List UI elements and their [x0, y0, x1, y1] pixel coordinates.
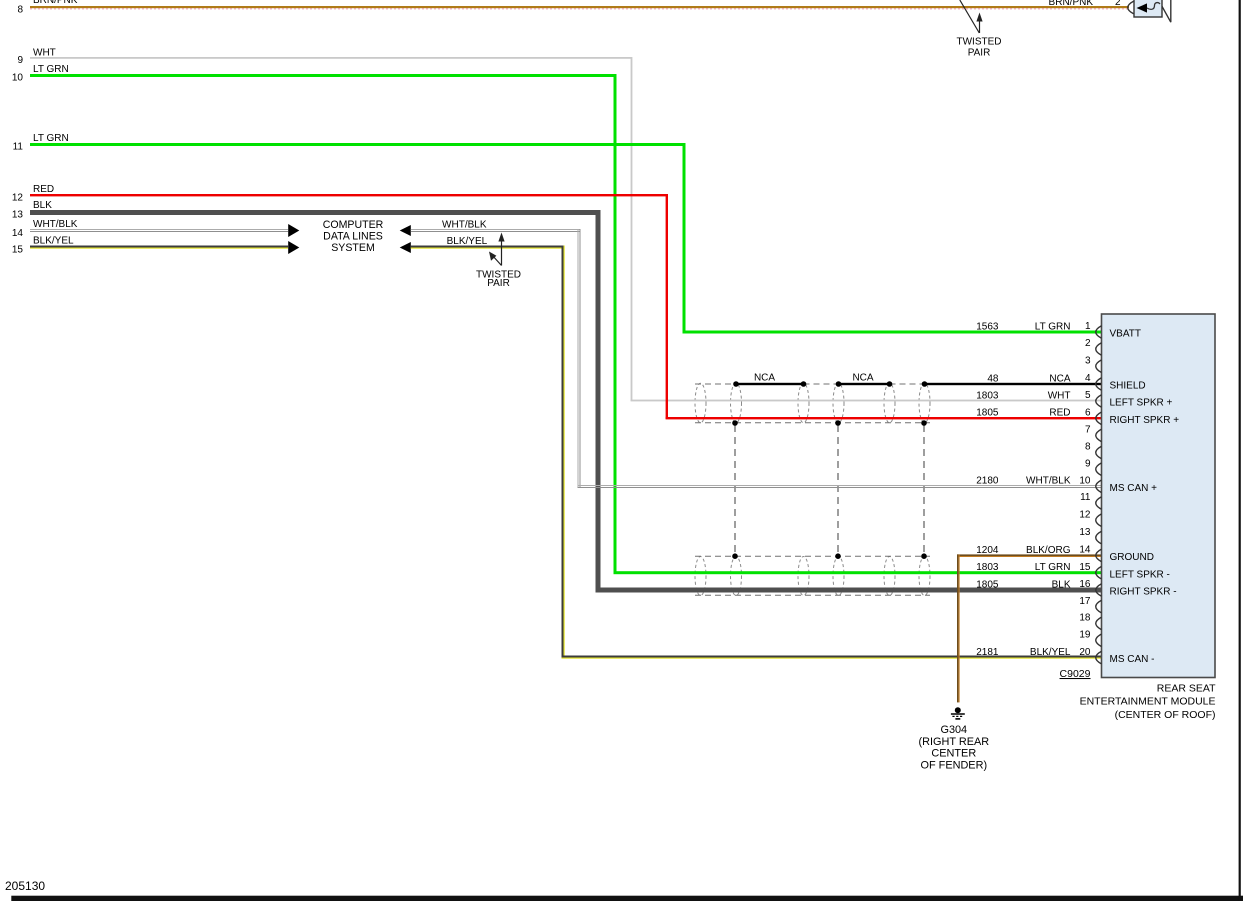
svg-text:8: 8 — [17, 5, 23, 16]
svg-text:10: 10 — [1079, 476, 1091, 487]
svg-text:MS CAN +: MS CAN + — [1110, 483, 1158, 494]
speaker (top right, cropped) — [1134, 0, 1171, 22]
svg-text:13: 13 — [1079, 527, 1091, 538]
svg-text:BLK/ORG: BLK/ORG — [1026, 545, 1071, 556]
svg-text:BLK/YEL: BLK/YEL — [447, 236, 488, 247]
shield rings upper (pins 4-6 cable) — [695, 383, 930, 423]
module: rear seat entertainment module box — [1102, 314, 1216, 678]
svg-text:MS CAN -: MS CAN - — [1110, 654, 1155, 665]
svg-text:11: 11 — [1080, 492, 1091, 503]
shield drain dashed verticals — [735, 425, 924, 553]
svg-text:15: 15 — [1079, 562, 1091, 573]
svg-text:7: 7 — [1085, 425, 1091, 436]
svg-text:8: 8 — [1085, 442, 1091, 453]
shield dashed top line lower — [695, 555, 930, 557]
page bottom bar — [11, 896, 1243, 901]
svg-text:RIGHT SPKR +: RIGHT SPKR + — [1110, 415, 1180, 426]
wire 10 LT GRN (to pin 15) — [12, 64, 1101, 574]
svg-text:NCA: NCA — [852, 373, 873, 384]
svg-text:12: 12 — [1079, 509, 1091, 520]
svg-text:2: 2 — [1115, 0, 1121, 8]
node COMPUTER DATA LINES SYSTEM — [323, 219, 384, 254]
pin 6 connector arc — [976, 408, 1179, 426]
speaker connector arc and arrow — [1128, 1, 1160, 14]
wire 15 BLK/YEL stub to computer data lines — [12, 236, 299, 256]
wire BLK/ORG 1204 (pin 14 to G304) — [957, 554, 1102, 702]
pin 9 connector arc — [1085, 458, 1102, 475]
svg-text:LEFT SPKR -: LEFT SPKR - — [1110, 569, 1170, 580]
pin 5 connector arc — [976, 390, 1172, 408]
junction dots shield top lower — [732, 553, 927, 559]
svg-text:2: 2 — [1085, 338, 1091, 349]
wire 11 LT GRN (to pin 1) — [13, 133, 1101, 334]
wire 9 WHT (to pin 5) — [17, 48, 1101, 402]
junction dots NCA drain (top) — [733, 381, 927, 387]
svg-text:10: 10 — [12, 73, 24, 84]
svg-text:11: 11 — [13, 142, 24, 153]
svg-text:6: 6 — [1085, 408, 1091, 419]
shield drain dashed top line upper — [695, 383, 925, 385]
pin 18 connector arc — [1079, 613, 1101, 630]
svg-text:BLK: BLK — [1052, 579, 1071, 590]
svg-text:ENTERTAINMENT MODULE: ENTERTAINMENT MODULE — [1080, 696, 1216, 708]
svg-text:LEFT SPKR +: LEFT SPKR + — [1110, 398, 1173, 409]
svg-text:SYSTEM: SYSTEM — [331, 242, 375, 254]
svg-text:G304: G304 — [940, 724, 967, 736]
svg-text:BLK/YEL: BLK/YEL — [1030, 647, 1071, 658]
svg-text:COMPUTER: COMPUTER — [323, 219, 384, 231]
pin 14 connector arc — [976, 545, 1154, 563]
svg-text:REAR SEAT: REAR SEAT — [1157, 682, 1216, 694]
svg-text:CENTER: CENTER — [931, 748, 976, 760]
wire 12 RED (to pin 6) — [12, 184, 1101, 419]
svg-text:1805: 1805 — [976, 579, 999, 590]
svg-text:205130: 205130 — [5, 879, 45, 893]
junction dots shield bottom — [732, 420, 927, 426]
svg-text:1803: 1803 — [976, 562, 999, 573]
svg-text:19: 19 — [1079, 630, 1091, 641]
connector designator C9029 — [1060, 668, 1091, 680]
twisted pair callout (computer data lines) — [476, 233, 521, 290]
speaker wire labels (cropped) — [1049, 0, 1121, 8]
svg-text:14: 14 — [12, 228, 24, 239]
svg-text:4: 4 — [1085, 373, 1091, 384]
svg-text:DATA LINES: DATA LINES — [323, 230, 383, 242]
svg-text:1563: 1563 — [976, 321, 999, 332]
svg-text:WHT/BLK: WHT/BLK — [33, 219, 78, 230]
svg-text:C9029: C9029 — [1060, 668, 1091, 680]
svg-text:WHT: WHT — [33, 48, 56, 59]
svg-text:WHT/BLK: WHT/BLK — [1026, 476, 1071, 487]
svg-text:RED: RED — [33, 184, 54, 195]
wire WHT/BLK 2180 (to pin 10) — [400, 219, 1102, 488]
svg-text:16: 16 — [1079, 579, 1091, 590]
svg-text:BLK/YEL: BLK/YEL — [33, 236, 74, 247]
svg-text:WHT/BLK: WHT/BLK — [442, 219, 487, 230]
svg-text:BLK: BLK — [33, 200, 52, 211]
svg-text:12: 12 — [12, 193, 24, 204]
wire NCA 48 (to pin 4) — [736, 383, 1101, 385]
shield dashed bottom line lower — [695, 594, 930, 596]
svg-text:9: 9 — [1085, 458, 1091, 469]
svg-text:RIGHT SPKR -: RIGHT SPKR - — [1110, 587, 1177, 598]
svg-text:TWISTED: TWISTED — [957, 36, 1002, 47]
svg-text:WHT: WHT — [1048, 390, 1071, 401]
svg-text:17: 17 — [1079, 596, 1091, 607]
svg-text:LT GRN: LT GRN — [1035, 321, 1071, 332]
shield dashed bottom line upper — [695, 422, 930, 424]
svg-text:(CENTER OF ROOF): (CENTER OF ROOF) — [1115, 709, 1216, 721]
pin 15 connector arc — [976, 562, 1170, 580]
svg-text:NCA: NCA — [754, 373, 775, 384]
page right border — [1239, 0, 1241, 901]
pin 20 connector arc — [976, 647, 1154, 665]
pin 13 connector arc — [1079, 527, 1101, 544]
pin 17 connector arc — [1079, 596, 1101, 613]
svg-text:RED: RED — [1049, 408, 1070, 419]
svg-text:14: 14 — [1079, 545, 1091, 556]
wire 13 BLK thick (to pin 16) — [12, 200, 1101, 593]
ground G304 — [919, 707, 990, 771]
svg-text:NCA: NCA — [1049, 373, 1070, 384]
svg-text:BRN/PNK: BRN/PNK — [33, 0, 78, 6]
svg-text:VBATT: VBATT — [1110, 329, 1141, 340]
svg-text:LT GRN: LT GRN — [33, 133, 69, 144]
wire BLK/YEL 2181 (to pin 20) — [400, 236, 1101, 659]
pin 10 connector arc — [976, 476, 1157, 494]
svg-text:1803: 1803 — [976, 390, 999, 401]
svg-text:9: 9 — [17, 55, 23, 66]
svg-text:3: 3 — [1085, 355, 1091, 366]
pin 11 connector arc — [1080, 492, 1101, 509]
svg-text:18: 18 — [1079, 613, 1091, 624]
svg-text:1204: 1204 — [976, 545, 999, 556]
svg-text:13: 13 — [12, 210, 24, 221]
svg-text:PAIR: PAIR — [968, 48, 991, 59]
svg-text:LT GRN: LT GRN — [1035, 562, 1071, 573]
wire 14 WHT/BLK stub to computer data lines — [12, 219, 299, 239]
svg-text:SHIELD: SHIELD — [1110, 381, 1146, 392]
pin 19 connector arc — [1079, 630, 1101, 647]
pin 3 connector arc — [1085, 355, 1102, 372]
svg-text:15: 15 — [12, 245, 24, 256]
pin 1 connector arc — [976, 321, 1141, 339]
pin 8 connector arc — [1085, 442, 1102, 459]
svg-text:2181: 2181 — [976, 647, 999, 658]
pin 16 connector arc — [976, 579, 1176, 597]
svg-text:1: 1 — [1085, 321, 1091, 332]
svg-text:1805: 1805 — [976, 408, 999, 419]
pin 12 connector arc — [1079, 509, 1101, 526]
twisted pair callout (speaker feed) — [957, 0, 1002, 59]
pin 2 connector arc — [1085, 338, 1102, 355]
svg-text:BRN/PNK: BRN/PNK — [1049, 0, 1094, 8]
pin 4 connector arc — [987, 373, 1145, 391]
module name label — [1080, 682, 1217, 721]
svg-text:2180: 2180 — [976, 476, 999, 487]
svg-text:48: 48 — [987, 373, 999, 384]
pin 7 connector arc — [1085, 425, 1102, 442]
shield rings lower (pins 15-16 cable) — [695, 557, 930, 596]
wire 8 BRN/PNK horizontal — [17, 0, 1129, 16]
svg-text:5: 5 — [1085, 390, 1091, 401]
svg-text:(RIGHT REAR: (RIGHT REAR — [919, 736, 990, 748]
svg-text:LT GRN: LT GRN — [33, 64, 69, 75]
svg-text:OF FENDER): OF FENDER) — [921, 760, 988, 772]
svg-text:GROUND: GROUND — [1110, 552, 1154, 563]
svg-text:PAIR: PAIR — [487, 278, 510, 289]
svg-text:20: 20 — [1079, 647, 1091, 658]
